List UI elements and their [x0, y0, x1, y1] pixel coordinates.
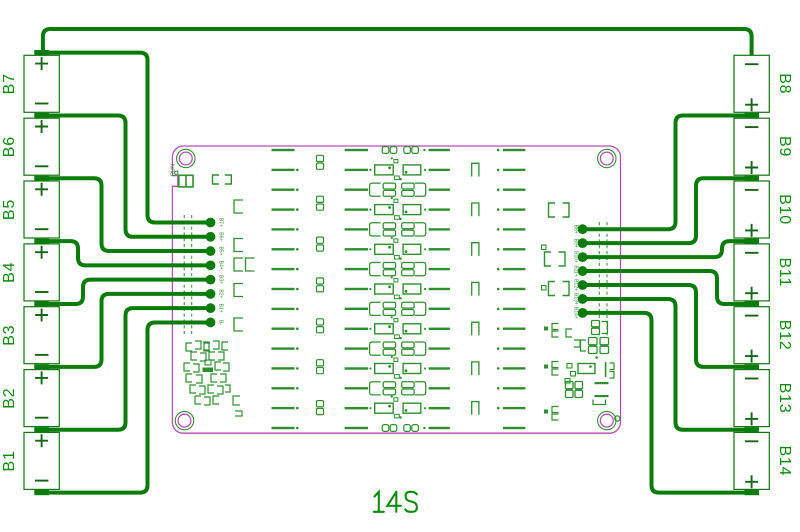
svg-text:B4: B4 — [1, 262, 18, 283]
PCB edge notch at RUN — [172, 171, 178, 186]
battery cell B9 — [734, 118, 793, 175]
svg-text:B14: B14 — [776, 445, 793, 476]
svg-text:B11: B11 — [776, 257, 793, 287]
svg-text:B4+: B4+ — [218, 261, 224, 270]
svg-text:B10+: B10+ — [573, 251, 579, 263]
svg-text:B9+: B9+ — [573, 239, 579, 248]
svg-text:B3: B3 — [1, 325, 18, 346]
mounting hole H1 — [177, 149, 195, 167]
battery cell B2 — [1, 370, 59, 427]
connector silkscreen dashes left — [184, 215, 192, 334]
wire right tap B8+ to pad — [582, 115, 750, 229]
svg-text:B2+: B2+ — [218, 289, 224, 298]
svg-text:B3+: B3+ — [218, 275, 224, 284]
svg-text:B11+: B11+ — [573, 265, 579, 277]
wire left tap B2+ to pad — [44, 294, 211, 367]
capacitor bracket column left — [213, 175, 255, 331]
capacitor bracket column inner-left — [317, 155, 324, 414]
wire left tap B5+ to pad — [44, 178, 211, 251]
battery junction tabs left — [34, 50, 49, 495]
svg-text:B6: B6 — [1, 136, 18, 157]
wire left tap B7+ to pad — [44, 53, 211, 223]
wire right tap B13+ to pad — [582, 299, 750, 430]
RUN jumper J1 — [171, 164, 193, 187]
svg-text:B1+: B1+ — [218, 304, 224, 313]
battery junction tabs right — [744, 113, 759, 495]
title text 14S — [374, 492, 417, 512]
mounting hole H2 — [598, 149, 616, 167]
svg-text:B10: B10 — [776, 194, 793, 225]
footprint bracket pairs right column — [542, 203, 570, 296]
resistor bar column right — [497, 149, 526, 430]
svg-text:B8+: B8+ — [573, 225, 579, 234]
resistor bar column left — [272, 149, 299, 430]
svg-text:B5+: B5+ — [218, 247, 224, 256]
svg-text:B2: B2 — [1, 388, 18, 409]
wire right tap B14+ to pad — [582, 313, 750, 493]
wire left tap B6+ to pad — [44, 115, 211, 236]
wire top rail B7+ to B8- — [43, 29, 752, 55]
svg-text:B7+: B7+ — [218, 218, 224, 227]
wire left tap B4+ to pad — [44, 241, 211, 265]
battery cell B8 — [734, 55, 793, 112]
wire right tap B10+ to pad — [582, 241, 750, 257]
svg-text:B14+: B14+ — [573, 307, 579, 319]
svg-text:B-: B- — [218, 320, 224, 325]
wire left tap B1- to pad — [44, 322, 211, 492]
component cluster bottom-left — [184, 341, 242, 416]
wire right tap B12+ to pad — [582, 285, 750, 367]
battery cell B14 — [734, 432, 793, 489]
PCB board outline U1 — [172, 146, 620, 433]
battery cell B11 — [734, 244, 793, 301]
connector silkscreen dashes right — [599, 222, 607, 336]
svg-text:B13: B13 — [776, 383, 793, 414]
wire right tap B9+ to pad — [582, 178, 750, 243]
svg-text:RUN: RUN — [171, 164, 177, 176]
wire left tap B1+ to pad — [44, 308, 211, 430]
balance pad row right J3 — [573, 224, 588, 319]
svg-text:B12: B12 — [776, 320, 793, 351]
battery cell B4 — [1, 244, 59, 301]
battery cell B12 — [734, 307, 793, 364]
svg-text:B7: B7 — [1, 73, 18, 94]
battery cell B7 — [1, 55, 59, 112]
mounting hole H3 — [175, 411, 193, 429]
svg-text:B13+: B13+ — [573, 293, 579, 305]
battery cell B3 — [1, 307, 59, 364]
svg-text:B8: B8 — [776, 73, 793, 94]
balancing cell rows middle column — [345, 147, 450, 432]
balance pad row left J2 — [206, 218, 224, 328]
via pad right edge — [615, 416, 620, 421]
svg-text:B12+: B12+ — [573, 279, 579, 291]
wire left tap B3+ to pad — [44, 280, 211, 304]
capacitor bracket column mid-right — [472, 163, 479, 414]
battery cell B10 — [734, 181, 793, 238]
battery cell B1 — [1, 432, 59, 489]
mounting hole H4 — [598, 411, 616, 429]
component cluster bottom-right — [544, 321, 614, 421]
svg-text:B6+: B6+ — [218, 232, 224, 241]
svg-text:B5: B5 — [1, 199, 18, 220]
svg-text:B1: B1 — [1, 450, 18, 471]
svg-text:B9: B9 — [776, 136, 793, 157]
battery cell B13 — [734, 370, 793, 427]
battery cell B6 — [1, 118, 59, 175]
wire right tap B11+ to pad — [582, 271, 750, 304]
battery cell B5 — [1, 181, 59, 238]
